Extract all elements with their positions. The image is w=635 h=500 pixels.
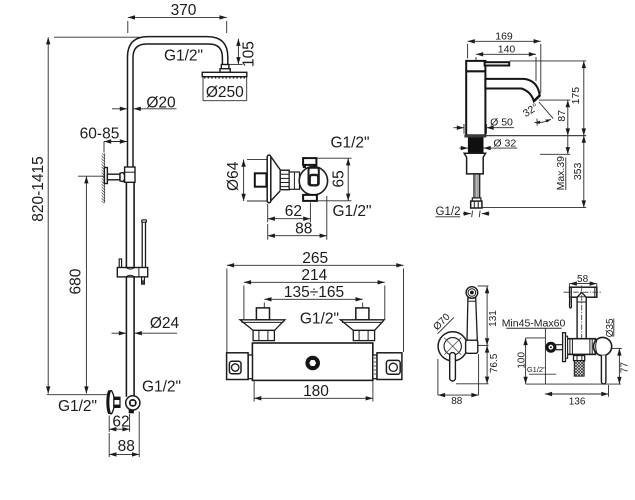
svg-text:Ø 50: Ø 50: [490, 116, 513, 128]
svg-text:140: 140: [498, 43, 516, 55]
svg-text:77: 77: [620, 362, 631, 374]
svg-text:62: 62: [112, 414, 129, 431]
svg-text:65: 65: [331, 170, 348, 187]
svg-text:G1/2": G1/2": [330, 135, 369, 152]
svg-text:G1/2": G1/2": [332, 203, 371, 220]
svg-text:58: 58: [577, 274, 589, 285]
svg-text:820-1415: 820-1415: [30, 156, 47, 222]
svg-text:175: 175: [570, 87, 582, 105]
svg-text:Max.39: Max.39: [555, 156, 567, 191]
svg-text:Ø24: Ø24: [150, 315, 180, 332]
svg-text:135÷165: 135÷165: [284, 284, 344, 301]
svg-text:680: 680: [68, 268, 85, 294]
svg-text:131: 131: [488, 310, 499, 327]
svg-text:Min45-Max60: Min45-Max60: [502, 317, 566, 329]
svg-text:G1/2": G1/2": [58, 398, 97, 415]
svg-text:353: 353: [572, 162, 584, 180]
svg-text:60-85: 60-85: [80, 126, 120, 143]
svg-text:Ø64: Ø64: [225, 161, 242, 191]
svg-text:214: 214: [301, 267, 327, 284]
svg-text:88: 88: [295, 220, 312, 237]
svg-text:G1/2": G1/2": [142, 378, 181, 395]
svg-text:180: 180: [303, 383, 329, 400]
svg-text:136: 136: [569, 397, 586, 408]
svg-text:370: 370: [171, 2, 197, 19]
svg-text:Ø20: Ø20: [146, 94, 176, 111]
svg-text:265: 265: [302, 250, 328, 267]
svg-text:Ø250: Ø250: [206, 84, 244, 101]
svg-text:87: 87: [556, 110, 568, 122]
svg-text:G1/2": G1/2": [527, 365, 546, 374]
svg-text:76.5: 76.5: [489, 353, 500, 373]
svg-text:88: 88: [118, 438, 135, 455]
svg-text:G1/2": G1/2": [164, 48, 203, 65]
svg-text:169: 169: [495, 30, 513, 42]
svg-text:Ø 32: Ø 32: [493, 137, 516, 149]
svg-text:105: 105: [240, 41, 257, 67]
svg-text:62: 62: [285, 203, 302, 220]
svg-text:G1/2": G1/2": [300, 310, 339, 327]
svg-text:88: 88: [451, 396, 463, 407]
